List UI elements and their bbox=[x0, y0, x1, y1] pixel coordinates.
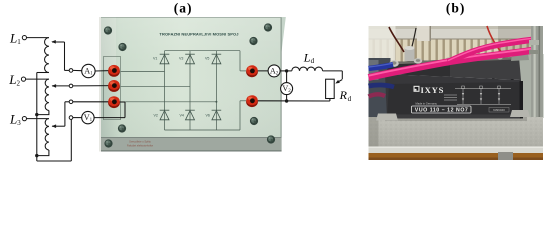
svg-text:V1: V1 bbox=[153, 57, 157, 61]
svg-text:(a): (a) bbox=[174, 0, 193, 15]
svg-text:Fakultet elektrotehnike: Fakultet elektrotehnike bbox=[127, 143, 154, 147]
svg-text:V3: V3 bbox=[179, 57, 183, 61]
svg-text:V4: V4 bbox=[180, 113, 184, 117]
svg-text:L: L bbox=[9, 30, 17, 45]
svg-text:3: 3 bbox=[17, 119, 21, 127]
svg-text:d: d bbox=[311, 57, 315, 65]
svg-text:R: R bbox=[339, 88, 348, 102]
svg-text:2: 2 bbox=[17, 79, 21, 87]
svg-text:TROFAZNI NEUPRAVLJIVI MOSNI SP: TROFAZNI NEUPRAVLJIVI MOSNI SPOJ bbox=[159, 31, 238, 36]
svg-text:Sveuciliste u Splitu: Sveuciliste u Splitu bbox=[129, 140, 151, 144]
svg-text:L: L bbox=[8, 72, 16, 87]
svg-text:(b): (b) bbox=[446, 0, 466, 15]
svg-text:V5: V5 bbox=[205, 57, 209, 61]
svg-text:Made in Germany: Made in Germany bbox=[416, 101, 438, 105]
svg-text:d: d bbox=[348, 95, 352, 103]
svg-text:V6: V6 bbox=[206, 113, 210, 117]
svg-text:L: L bbox=[9, 111, 17, 126]
svg-text:IXYS: IXYS bbox=[421, 85, 445, 95]
svg-text:VUO 110 – 12 NO7: VUO 110 – 12 NO7 bbox=[415, 108, 468, 114]
svg-text:9399040: 9399040 bbox=[493, 108, 505, 112]
svg-text:V2: V2 bbox=[154, 113, 158, 117]
svg-text:L: L bbox=[303, 50, 311, 64]
svg-text:1: 1 bbox=[17, 38, 21, 46]
